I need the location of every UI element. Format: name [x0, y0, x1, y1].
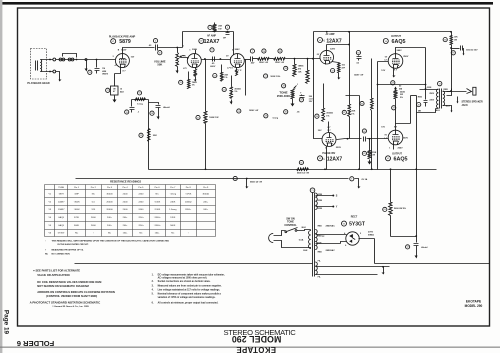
svg-text:1: 1	[297, 84, 298, 86]
svg-text:2400: 2400	[138, 201, 144, 203]
svg-text:2850VAC: 2850VAC	[326, 249, 336, 252]
svg-text:CONTROL: CONTROL	[284, 224, 297, 227]
svg-text:2000Ω: 2000Ω	[185, 201, 192, 203]
wire secondary to jack	[447, 91, 467, 93]
svg-text:L7V 8: L7V 8	[227, 67, 233, 69]
svg-text:3000Ω: 3000Ω	[234, 88, 241, 90]
svg-text:BLK: BLK	[302, 227, 307, 229]
svg-text:90MA: 90MA	[368, 233, 374, 236]
svg-text:470K: 470K	[372, 151, 377, 154]
svg-text:160+: 160+	[155, 233, 161, 235]
svg-text:300V: 300V	[192, 49, 198, 51]
svg-text:OUTPUT: OUTPUT	[392, 152, 402, 155]
svg-text:2400: 2400	[123, 201, 129, 203]
svg-text:2400: 2400	[123, 209, 129, 211]
wire heater bus lower	[75, 263, 313, 265]
bottom page rule	[0, 347, 500, 348]
svg-text:240+: 240+	[203, 201, 209, 203]
svg-text:2400: 2400	[91, 225, 97, 227]
svg-text:3000Ω: 3000Ω	[202, 193, 209, 195]
svg-text:NC: NC	[171, 233, 175, 235]
svg-text:1W: 1W	[218, 28, 221, 30]
wire V2B out	[245, 59, 251, 61]
svg-text:180K 1W: 180K 1W	[209, 117, 219, 119]
svg-text:2: 2	[188, 57, 189, 59]
svg-text:Pin 4: Pin 4	[123, 187, 129, 189]
tube V2B triode	[230, 54, 244, 68]
wire V2A grid	[187, 58, 189, 60]
transformer T1 core	[313, 193, 315, 277]
svg-text:↑300K: ↑300K	[73, 208, 80, 211]
resistor 1meg	[135, 98, 146, 101]
svg-text:12K: 12K	[298, 72, 302, 74]
svg-text:6V 3A: 6V 3A	[362, 178, 368, 181]
wire V5 cathode	[393, 145, 395, 150]
resistor 3000 ohm 1pct V2B	[231, 76, 233, 87]
svg-text:A PHOTOFACT STANDARD NOTATION: A PHOTOFACT STANDARD NOTATION SCHEMATIC	[30, 301, 102, 305]
svg-text:NC: NC	[139, 233, 143, 235]
svg-text:2850VAC: 2850VAC	[326, 225, 336, 228]
wire B+ rail V2	[183, 31, 234, 33]
svg-text:120V: 120V	[330, 48, 336, 50]
svg-text:NC: NC	[156, 193, 160, 195]
svg-text:240+: 240+	[203, 209, 209, 211]
wire T2 primary bottom	[417, 109, 436, 113]
svg-text:AF AMP: AF AMP	[325, 33, 334, 36]
svg-text:GRN: GRN	[427, 87, 432, 89]
svg-text:1W: 1W	[454, 39, 457, 41]
wire T2 left rail	[416, 96, 418, 170]
svg-text:Pin 8: Pin 8	[186, 187, 192, 189]
transformer T1 primary	[309, 231, 311, 249]
svg-text:230V: 230V	[429, 100, 434, 102]
transformer T2	[436, 89, 438, 108]
svg-text:6AQ5: 6AQ5	[58, 216, 64, 219]
resistor V3 cathode	[332, 62, 339, 63]
svg-text:20000: 20000	[106, 209, 113, 211]
svg-text:Pin 1: Pin 1	[74, 187, 80, 189]
input node junction	[85, 59, 87, 61]
tube V3 triode	[320, 50, 334, 64]
svg-text:STEREO SPEAKER: STEREO SPEAKER	[462, 101, 484, 104]
capacitor .05 600V	[213, 57, 215, 62]
svg-text:PLAYBACK PRE-AMP: PLAYBACK PRE-AMP	[109, 34, 136, 38]
tube V5 6AQ5	[388, 130, 403, 145]
resistor 5600 bus	[297, 168, 309, 171]
svg-text:240+: 240+	[123, 225, 129, 227]
svg-text:240Ω: 240Ω	[400, 90, 405, 93]
svg-text:6AQ5: 6AQ5	[391, 39, 405, 45]
svg-text:1%: 1%	[192, 85, 195, 87]
svg-text:RED: RED	[318, 225, 323, 227]
svg-text:20000: 20000	[106, 201, 113, 203]
resistor V5 grid 470K	[369, 139, 371, 151]
svg-text:6AQ5: 6AQ5	[58, 224, 64, 227]
circled ref 17	[106, 88, 110, 92]
wire plug loop	[278, 230, 311, 236]
resistor 3000 ohm 1pct	[323, 84, 325, 109]
svg-text:↑1meg: ↑1meg	[170, 192, 177, 195]
svg-text:1meg: 1meg	[272, 118, 278, 120]
wire V1 plate	[123, 48, 155, 54]
svg-text:240V: 240V	[397, 49, 403, 52]
svg-text:5Y3GT: 5Y3GT	[58, 233, 66, 235]
svg-text:2400: 2400	[91, 217, 97, 219]
svg-text:GRN: GRN	[318, 200, 323, 202]
svg-text:12V: 12V	[381, 70, 385, 72]
svg-text:All controls at minimum, prop: All controls at minimum, proper output l…	[158, 301, 219, 304]
svg-text:11V: 11V	[381, 126, 385, 128]
resistor 100K half W	[253, 58, 258, 60]
svg-text:↑250+: ↑250+	[138, 224, 145, 227]
wire T2 primary top	[420, 90, 433, 96]
svg-text:5879: 5879	[119, 39, 131, 45]
resistor 240 2W 5pct	[394, 87, 397, 90]
svg-text:16: 16	[120, 89, 122, 91]
svg-text:22K: 22K	[153, 135, 157, 137]
svg-text:MODEL 290: MODEL 290	[465, 304, 483, 308]
svg-text:1%: 1%	[224, 77, 227, 79]
wire heater bus upper	[76, 178, 349, 180]
transformer T1 HV winding	[315, 230, 317, 250]
tube V2 designator	[199, 38, 204, 43]
wire V3 box	[314, 32, 452, 139]
lower connector wire	[56, 72, 60, 77]
capacitor .02 decoupling	[225, 25, 229, 29]
svg-text:MODEL 290: MODEL 290	[232, 334, 282, 344]
svg-text:1MEG: 1MEG	[298, 66, 304, 68]
svg-text:5%: 5%	[400, 97, 403, 99]
svg-text:240K: 240K	[170, 201, 176, 203]
wire filament run	[316, 267, 390, 275]
svg-text:30K: 30K	[224, 74, 228, 76]
top page rule	[2, 2, 493, 5]
svg-text:1.3meg: 1.3meg	[169, 209, 177, 211]
svg-text:AC voltages measured at 1000 o: AC voltages measured at 1000 ohms per vo…	[158, 277, 208, 280]
svg-text:370K: 370K	[74, 217, 80, 219]
svg-text:40M: 40M	[102, 70, 106, 73]
svg-text:20K: 20K	[218, 26, 222, 28]
circled ref 36 heater tap	[233, 176, 237, 180]
svg-text:RED: RED	[318, 251, 323, 253]
svg-text:250V: 250V	[429, 93, 434, 95]
speaker jack	[467, 89, 472, 94]
volume control 50K	[176, 53, 179, 67]
circled ref 14	[88, 70, 92, 74]
wire interstage	[202, 59, 231, 61]
svg-text:2400: 2400	[138, 193, 144, 195]
circled ref T heater end	[350, 177, 354, 181]
svg-text:570K: 570K	[170, 217, 176, 219]
capacitor 100mfd 15V	[452, 48, 460, 50]
wire T2 center tap	[447, 89, 452, 96]
heater tap Y	[316, 206, 333, 208]
svg-text:5879: 5879	[59, 193, 65, 195]
svg-text:5600 2W 5%: 5600 2W 5%	[394, 208, 406, 210]
svg-text:↑1300+: ↑1300+	[153, 216, 161, 219]
capacitor .02 V3	[356, 51, 360, 55]
svg-text:240+: 240+	[107, 225, 113, 227]
svg-text:EKOTAPE: EKOTAPE	[466, 299, 481, 303]
resistor 22K	[148, 129, 151, 142]
svg-text:6AQ5: 6AQ5	[393, 156, 407, 162]
svg-text:30K: 30K	[351, 110, 355, 112]
capacitor .05 out	[364, 137, 366, 142]
resistor 180K 1W	[205, 59, 207, 112]
wire V3B cathode	[326, 147, 328, 170]
svg-text:300V: 300V	[235, 49, 241, 51]
svg-text:40mfd: 40mfd	[163, 106, 170, 109]
tone control pot	[291, 90, 295, 99]
svg-text:NC: NC	[75, 233, 79, 235]
svg-text:● SEE PARTS LIST FOR ALTERNATE: ● SEE PARTS LIST FOR ALTERNATE	[33, 269, 80, 273]
transformer T1 heater winding	[315, 193, 317, 210]
svg-text:1%: 1%	[326, 115, 329, 117]
svg-text:Line voltage maintained at 117: Line voltage maintained at 117 volts for…	[158, 289, 221, 292]
svg-text:Page 19: Page 19	[3, 310, 10, 335]
wire screen rail right	[378, 84, 426, 86]
wire filter node	[391, 170, 417, 237]
svg-text:250V: 250V	[403, 56, 409, 58]
svg-text:1: 1	[183, 45, 184, 47]
capacitor 40mfd	[149, 103, 159, 105]
playback head box	[31, 49, 47, 80]
svg-text:1MF: 1MF	[74, 193, 79, 195]
connector plug contacts	[53, 58, 56, 61]
svg-text:MK: MK	[418, 111, 422, 113]
transformer T1 filament winding	[315, 262, 317, 275]
wire V3B out	[337, 139, 362, 140]
wire secondary ground	[447, 106, 452, 108]
resistor 140K half W	[371, 59, 373, 99]
capacitor .02 coupling	[156, 45, 158, 51]
svg-text:TUBE: TUBE	[58, 187, 64, 189]
svg-text:100mfd 15V: 100mfd 15V	[466, 50, 478, 52]
resistor 500K	[307, 59, 309, 71]
svg-text:DC COIL RESISTANCE VALUES UNDE: DC COIL RESISTANCE VALUES UNDER ONE OHM	[37, 280, 102, 284]
svg-text:BLK: BLK	[303, 250, 308, 252]
tube V3B triode	[322, 133, 336, 147]
tube V2A triode	[187, 54, 201, 68]
svg-text:Socket connections are shown a: Socket connections are shown as bottom v…	[158, 280, 211, 283]
svg-text:.47: .47	[114, 64, 117, 67]
svg-text:↑250+: ↑250+	[138, 216, 145, 219]
resistor V1 cathode network box	[111, 86, 119, 95]
svg-text:50K: 50K	[157, 63, 162, 67]
wire V5 to transformer	[411, 95, 417, 97]
svg-text:↑: ↑	[45, 240, 46, 243]
svg-text:TONE: TONE	[279, 90, 287, 94]
capacitor T2 snubber	[425, 96, 427, 100]
svg-text:30V: 30V	[318, 130, 322, 132]
wire V3B plate	[328, 122, 330, 133]
svg-text:1%: 1%	[234, 91, 237, 93]
svg-text:47: 47	[113, 90, 115, 93]
capacitor .1	[131, 100, 133, 107]
resistor 1meg lower	[264, 114, 268, 118]
svg-text:0.5A: 0.5A	[299, 239, 304, 242]
svg-text:DC voltage measurements taken: DC voltage measurements taken with vacuu…	[158, 273, 225, 276]
power switch	[285, 231, 287, 233]
capacitor 40mfd filter	[416, 237, 418, 243]
svg-text:↑1300+: ↑1300+	[153, 224, 161, 227]
svg-text:↑130K: ↑130K	[154, 200, 161, 203]
svg-text:12AX7: 12AX7	[326, 38, 342, 44]
wire head to plug	[44, 60, 51, 72]
wire V4 plate	[396, 48, 426, 90]
svg-text:L7V: L7V	[183, 68, 187, 70]
svg-text:GRN: GRN	[318, 208, 323, 210]
resistor 10K 1W	[451, 32, 453, 36]
svg-text:2400: 2400	[123, 193, 129, 195]
resistor 30K 1pct V2B	[221, 65, 223, 73]
svg-text:VALUE OR APPLICATION: VALUE OR APPLICATION	[37, 273, 69, 277]
svg-text:OUTPUT: OUTPUT	[391, 35, 401, 38]
svg-text:WATS: WATS	[102, 72, 108, 75]
svg-text:12AX7: 12AX7	[204, 39, 220, 45]
svg-text:NC: NC	[45, 253, 49, 255]
svg-text:PLAYBACK HEAD: PLAYBACK HEAD	[27, 81, 49, 85]
capacitor .047	[251, 57, 253, 62]
capacitor C14 input	[96, 60, 98, 68]
svg-text:1meg: 1meg	[137, 103, 143, 105]
svg-text:EKOTAPE: EKOTAPE	[236, 345, 276, 353]
svg-text:3000Ω: 3000Ω	[326, 112, 333, 114]
wire mid verticals	[346, 96, 360, 170]
svg-text:RED: RED	[444, 89, 449, 91]
svg-text:560K: 560K	[74, 225, 80, 227]
wire V2A cathode	[195, 68, 197, 70]
svg-text:NO CONNECTION: NO CONNECTION	[52, 253, 71, 255]
svg-text:7: 7	[230, 57, 231, 59]
svg-text:30000: 30000	[106, 193, 113, 195]
shielded cable	[56, 59, 87, 61]
playback head coil	[40, 60, 42, 72]
svg-text:Pin 3: Pin 3	[107, 187, 113, 189]
svg-text:560K: 560K	[170, 225, 176, 227]
svg-text:Pin 9: Pin 9	[203, 187, 209, 189]
svg-text:AE2: AE2	[120, 90, 124, 93]
resistor 780 ohm	[188, 72, 190, 80]
svg-text:BLU: BLU	[436, 110, 441, 112]
svg-text:IN THE ASSOCIATED CIRCUIT.: IN THE ASSOCIATED CIRCUIT.	[58, 243, 89, 246]
wire input to V1 grid	[87, 59, 116, 61]
svg-text:Nominal tolerance of component: Nominal tolerance of component values ma…	[158, 293, 222, 296]
resistor 1meg grid	[294, 59, 296, 65]
svg-text:(CONTROL VIEWED FROM SHAFT END: (CONTROL VIEWED FROM SHAFT END)	[46, 294, 97, 298]
resistor 5600 2W	[390, 170, 392, 203]
svg-text:© Howard W. Sams & Co., Inc. 1: © Howard W. Sams & Co., Inc. 1955	[52, 305, 89, 308]
svg-text:Pin 6: Pin 6	[155, 187, 161, 189]
svg-text:↑375K: ↑375K	[185, 192, 192, 195]
svg-text:ARROWS ON CONTROLS INDICATE CL: ARROWS ON CONTROLS INDICATE CLOCKWISE RO…	[37, 290, 115, 294]
svg-text:40mfd: 40mfd	[421, 246, 428, 249]
svg-text:250K·300K: 250K·300K	[277, 94, 290, 98]
svg-text:10K: 10K	[454, 36, 458, 38]
rectifier V6 5Y3GT	[346, 232, 359, 245]
svg-text:1%: 1%	[351, 113, 354, 115]
svg-text:THIS READING WILL VARY DEPENDI: THIS READING WILL VARY DEPENDING UPON TH…	[52, 240, 170, 243]
svg-text:Measured values are from socke: Measured values are from socket pin to c…	[158, 285, 222, 288]
svg-text:Pin 2: Pin 2	[91, 187, 97, 189]
svg-text:JACK: JACK	[462, 104, 469, 107]
svg-text:240+: 240+	[107, 217, 113, 219]
svg-text:12AX7: 12AX7	[58, 200, 65, 203]
svg-text:3200+: 3200+	[185, 209, 192, 211]
wire V5 plate	[396, 96, 411, 131]
resistor V2B cathode	[236, 68, 238, 70]
svg-text:↑300K: ↑300K	[73, 200, 80, 203]
tube V4 6AQ5	[388, 54, 403, 69]
svg-text:NC: NC	[92, 193, 96, 195]
transformer T2 designator	[438, 81, 442, 85]
transformer T1 designator	[310, 188, 315, 193]
resistor 120K half W	[270, 58, 274, 60]
svg-text:NC: NC	[108, 233, 112, 235]
left scan edge band	[0, 0, 2, 353]
svg-text:152V: 152V	[121, 49, 127, 51]
svg-text:PHASE INV: PHASE INV	[322, 152, 335, 155]
svg-text:780Ω: 780Ω	[192, 82, 197, 84]
svg-text:RED(+): RED(+)	[318, 236, 325, 238]
svg-text:12K: 12K	[91, 209, 95, 211]
svg-text:variation of ±15% in voltage a: variation of ±15% in voltage and resista…	[158, 296, 216, 299]
rectifier output	[359, 239, 490, 264]
svg-text:RESISTANCE READINGS: RESISTANCE READINGS	[110, 179, 141, 183]
wire V3B grid	[314, 59, 323, 139]
svg-text:12AX7: 12AX7	[58, 208, 65, 211]
svg-text:Pin 5: Pin 5	[138, 187, 144, 189]
svg-text:MEASURED FROM PINS OF V6.: MEASURED FROM PINS OF V6.	[52, 249, 85, 252]
svg-text:1M: 1M	[113, 88, 116, 90]
svg-text:5Y3GT: 5Y3GT	[349, 222, 365, 228]
wire V1 cathode	[115, 68, 121, 87]
svg-text:↑: ↑	[188, 232, 189, 235]
resistor 30K 1pct	[348, 105, 351, 117]
circled ref 23b	[237, 109, 241, 113]
svg-text:NOT SHOWN ON SCHEMATIC DIAGRAM: NOT SHOWN ON SCHEMATIC DIAGRAM	[37, 284, 89, 288]
svg-text:12AX7: 12AX7	[327, 156, 343, 162]
svg-text:RECT: RECT	[351, 215, 358, 218]
svg-text:250V: 250V	[403, 137, 409, 139]
svg-text:220V: 220V	[336, 147, 342, 149]
svg-text:↑130K: ↑130K	[154, 208, 161, 211]
wire T1 to rectifier	[316, 234, 347, 236]
wire ground bus	[149, 169, 437, 171]
svg-text:2400: 2400	[138, 209, 144, 211]
wire screen rail	[132, 100, 149, 170]
svg-text:↑: ↑	[93, 232, 94, 235]
svg-text:500K 10%: 500K 10%	[271, 76, 281, 78]
ac plug	[274, 236, 278, 241]
svg-text:2W: 2W	[400, 94, 403, 96]
svg-text:240+: 240+	[123, 217, 129, 219]
svg-text:265V: 265V	[398, 148, 404, 150]
tube V1 designator	[111, 39, 116, 44]
resistor 20K 1W plate	[214, 23, 216, 25]
wire V4 grid	[378, 62, 389, 170]
svg-text:FOLDER 6: FOLDER 6	[17, 339, 55, 348]
wire V4 cathode	[393, 69, 395, 73]
heater tap S	[316, 195, 333, 197]
svg-text:150+: 150+	[123, 233, 129, 235]
svg-text:Pin 7: Pin 7	[170, 187, 176, 189]
circled ref 40	[417, 103, 421, 107]
svg-text:AF AMP: AF AMP	[207, 35, 216, 38]
svg-text:270V: 270V	[368, 231, 374, 233]
wire V2 plate rail	[196, 32, 234, 55]
svg-text:600V: 600V	[210, 66, 216, 68]
